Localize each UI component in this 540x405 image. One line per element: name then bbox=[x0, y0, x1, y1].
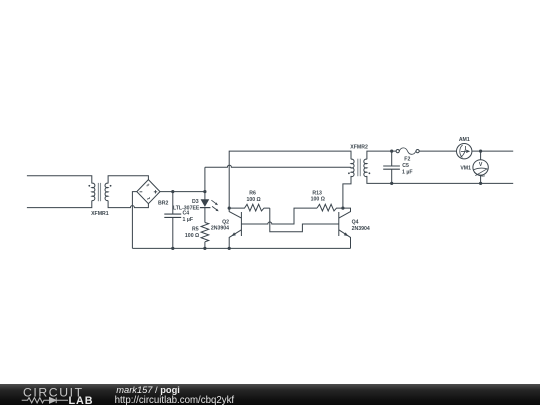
wire: VM1 bottom lead bbox=[480, 175, 482, 183]
junction: R5 bottom bbox=[203, 247, 206, 250]
wire: XFMR1 secondary bottom to bridge bottom with hop bbox=[108, 201, 148, 208]
BR2 ac mark top bbox=[147, 184, 150, 187]
resistor R6 bbox=[229, 204, 270, 211]
wire: VM1 top lead bbox=[480, 151, 482, 160]
transformer XFMR2 core bbox=[358, 159, 361, 177]
junction: C5 bottom bbox=[390, 182, 393, 185]
wire: XFMR1 secondary top to bridge top bbox=[108, 176, 148, 184]
transistor Q4 base bar bbox=[338, 212, 340, 236]
wire: XFMR2 secondary bottom rail bbox=[367, 176, 513, 184]
transformer XFMR1 primary winding bbox=[92, 183, 95, 201]
transformer XFMR1 secondary winding bbox=[105, 183, 108, 201]
junction: C4 bottom bbox=[171, 247, 174, 250]
BR2 plus mark bbox=[154, 190, 157, 193]
wire: D3 cathode to R5 bbox=[204, 208, 206, 223]
wire: ammeter to right end bbox=[472, 150, 513, 152]
transistor Q2 (mirrored NPN) collector bbox=[229, 208, 241, 218]
resistor R5 bbox=[201, 223, 209, 242]
svg-text:http://circuitlab.com/cbq2ykf: http://circuitlab.com/cbq2ykf bbox=[115, 395, 235, 405]
wire: XFMR1 primary bottom input bbox=[27, 201, 92, 208]
wire: C4 top lead bbox=[172, 192, 174, 215]
XFMR2 primary phase dot bbox=[348, 172, 350, 174]
transistor Q4 emitter arrow bbox=[344, 232, 349, 236]
BR2 minus mark bbox=[140, 191, 143, 193]
fuse F2 element bbox=[399, 148, 416, 154]
wire: R5 bottom lead bbox=[204, 242, 206, 249]
diode D3 anode wire bbox=[204, 192, 206, 200]
junction: VM1 top bbox=[479, 150, 482, 153]
transistor Q2 emitter arrow bbox=[231, 232, 236, 236]
wire: C5 top lead bbox=[391, 151, 393, 166]
transformer XFMR1 core bbox=[98, 183, 100, 201]
capacitor C5 bbox=[383, 166, 400, 169]
LED D3 cathode bar bbox=[200, 207, 211, 209]
XFMR1 primary phase dot bbox=[88, 185, 90, 187]
CircuitLab logo resistor-diode motif bbox=[22, 398, 68, 404]
capacitor C4 bbox=[164, 214, 181, 217]
footer bar bbox=[0, 384, 540, 405]
junction: VM1 bottom bbox=[479, 182, 482, 185]
wire: XFMR2 secondary top to fuse bbox=[367, 151, 396, 159]
ammeter AM1 arrow bbox=[466, 150, 470, 153]
transformer XFMR2 primary winding bbox=[351, 159, 354, 177]
junction: Q4 collector node bbox=[341, 207, 344, 210]
svg-text:LAB: LAB bbox=[69, 395, 94, 405]
ammeter AM1 glyph bbox=[460, 145, 466, 158]
transistor Q2 emitter bbox=[229, 230, 241, 249]
wire: bottom rail bbox=[132, 247, 350, 249]
resistor R13 bbox=[317, 204, 343, 211]
wire: C4 bottom lead bbox=[172, 217, 174, 248]
transistor Q4 collector bbox=[339, 208, 351, 218]
fuse F2 right terminal bbox=[416, 150, 419, 153]
XFMR1 secondary phase dot bbox=[110, 185, 112, 187]
junction: Q2 collector node bbox=[228, 207, 231, 210]
wire: XFMR1 primary top input bbox=[27, 176, 92, 184]
bridge rectifier BR2 bbox=[137, 180, 160, 204]
LED D3 triangle bbox=[201, 200, 208, 206]
BR2 ac mark bottom bbox=[147, 197, 150, 200]
wire: top rail from Q2 collector riser to XFMR2 primary bbox=[229, 151, 351, 208]
transistor Q2 base bar bbox=[240, 212, 242, 236]
wire: BR2 plus to supply node bbox=[160, 191, 205, 193]
wire: C5 bottom lead bbox=[391, 169, 393, 183]
fuse F2 left terminal bbox=[396, 150, 399, 153]
junction: supply node bbox=[203, 190, 206, 193]
transformer XFMR2 secondary winding bbox=[364, 159, 367, 177]
voltmeter VM1 glyph bbox=[474, 168, 488, 176]
wire: fuse to ammeter bbox=[419, 150, 456, 152]
wire: Q2 base to R13 with hop bbox=[241, 208, 317, 224]
junction: Q2 emitter at rail bbox=[228, 247, 231, 250]
wire: supply node to center tap (line2) with hop bbox=[205, 165, 351, 191]
junction: C4 tap bbox=[171, 190, 174, 193]
wire: R6 right end jog down to Q4 base bbox=[270, 208, 339, 232]
voltmeter VM1 body bbox=[473, 160, 488, 175]
LED D3 emission arrows bbox=[211, 200, 218, 211]
transistor Q4 emitter bbox=[339, 230, 351, 249]
wire: XFMR2 primary bottom to Q4 collector node bbox=[343, 176, 351, 208]
svg-text:mark157 / pogi: mark157 / pogi bbox=[116, 385, 180, 395]
XFMR2 secondary phase dot bbox=[369, 172, 371, 174]
wire: BR2 minus (left corner) down to ground rail bbox=[132, 192, 136, 249]
junction: C5 top bbox=[390, 150, 393, 153]
ammeter AM1 body bbox=[457, 144, 472, 159]
